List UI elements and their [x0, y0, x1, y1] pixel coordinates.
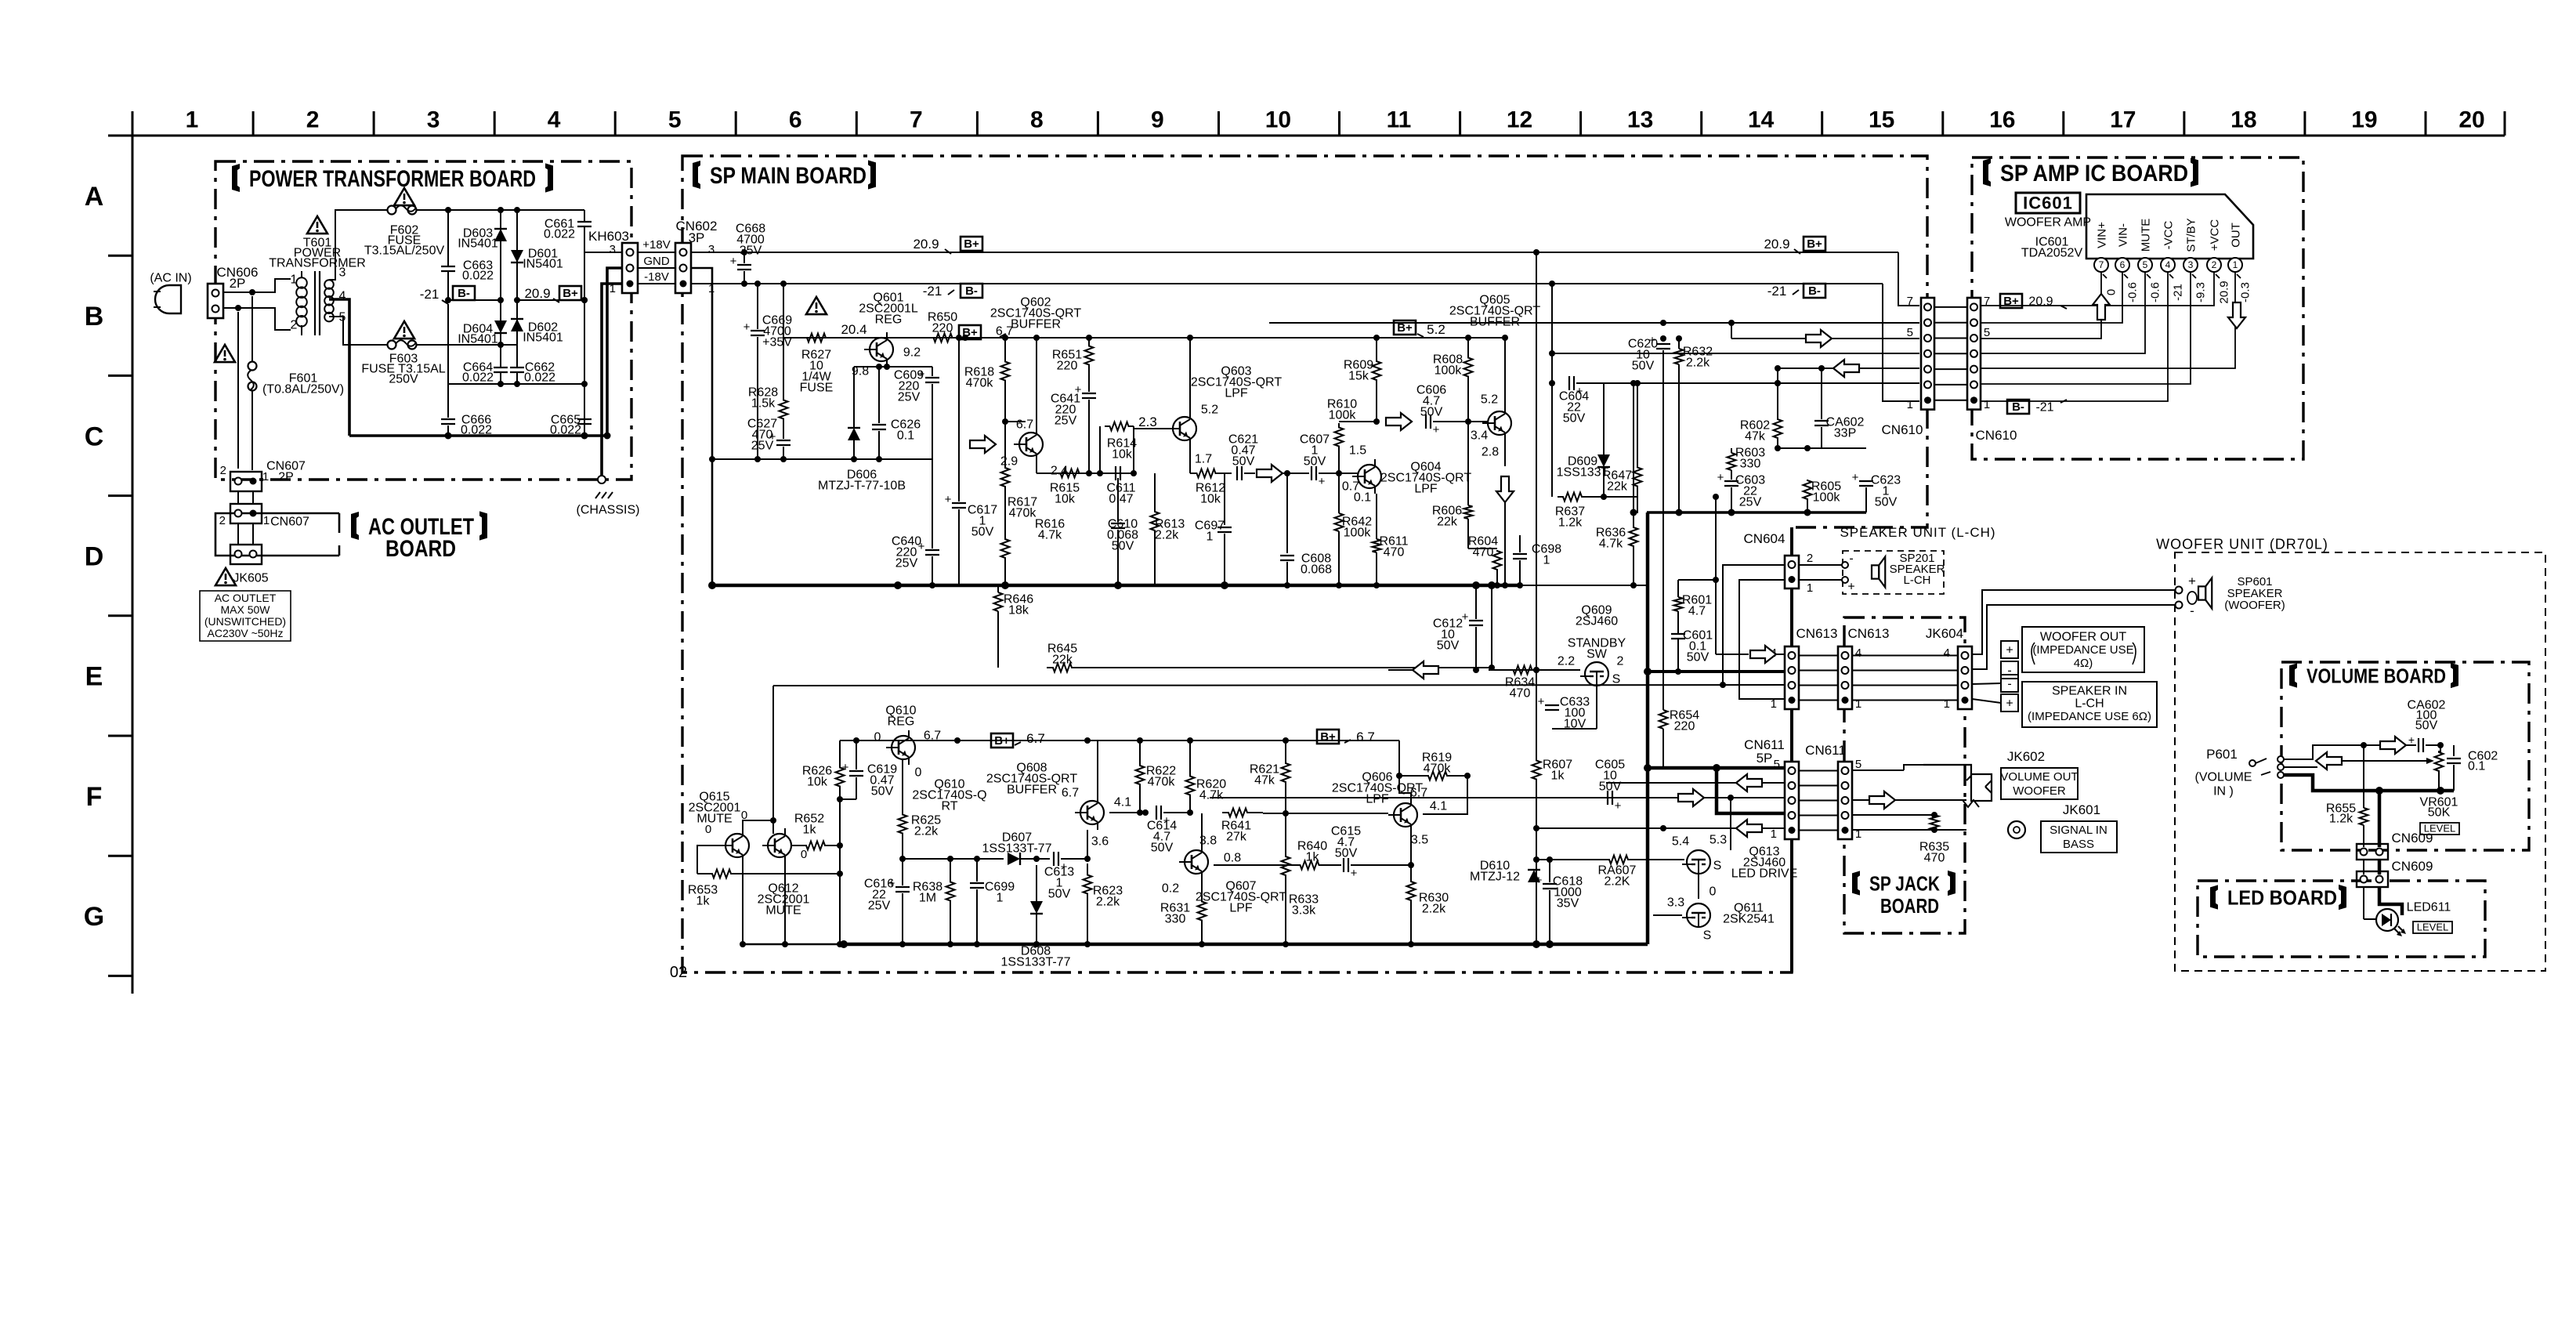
svg-text:R611470: R611470 — [1379, 535, 1408, 559]
capacitor C615 — [1331, 825, 1414, 881]
connector CN610 right — [1967, 295, 2017, 443]
capacitor C668 — [730, 223, 766, 287]
resistor R602 — [1740, 380, 1782, 448]
svg-text:R618470k: R618470k — [964, 366, 994, 390]
capacitor C661 — [544, 210, 592, 255]
wire Q604 emitter/collector — [1374, 454, 1376, 509]
arrow volume left — [2316, 752, 2342, 769]
wire R647 bottom — [1604, 497, 1637, 513]
svg-text:1: 1 — [1807, 581, 1813, 595]
svg-text:2: 2 — [220, 464, 226, 477]
wire Q603 base — [1134, 428, 1167, 429]
wire transformer secondary to F602 — [329, 210, 387, 280]
svg-text:7: 7 — [910, 107, 923, 133]
speaker SP601 terminals — [2176, 574, 2197, 618]
wire Q612 emitter down — [784, 857, 786, 944]
capacitor C608 — [1280, 473, 1332, 588]
transistor Q602 — [990, 296, 1081, 478]
label B+ 6.7 lower-right — [1317, 730, 1375, 744]
wire y451 line — [1549, 350, 1919, 357]
resistor R625 — [899, 760, 942, 859]
svg-text:B-: B- — [2012, 400, 2024, 414]
svg-text:5.2: 5.2 — [1427, 322, 1445, 337]
svg-text:R627101/4WFUSE: R627101/4WFUSE — [800, 349, 834, 395]
svg-text:B+: B+ — [1320, 730, 1336, 744]
svg-text:2.3: 2.3 — [1138, 415, 1157, 429]
svg-text:C6190.4750V: C6190.4750V — [867, 763, 897, 798]
svg-text:1: 1 — [291, 273, 298, 287]
connector CN609 lower — [2357, 859, 2433, 887]
svg-text:5.4: 5.4 — [1672, 835, 1689, 849]
svg-text:CN610: CN610 — [1976, 428, 2017, 443]
svg-text:C6620.022: C6620.022 — [524, 361, 555, 385]
svg-text:13: 13 — [1627, 107, 1653, 133]
wire to JK605 — [238, 523, 253, 545]
wire y999 line — [1606, 782, 1784, 784]
board outline SP JACK BOARD — [1844, 617, 1965, 933]
resistor R654 — [1659, 709, 1700, 768]
svg-text:R617470k: R617470k — [1008, 496, 1037, 520]
capacitor C641 — [1051, 370, 1096, 473]
svg-text:9: 9 — [1151, 107, 1164, 133]
resistor R638 — [913, 856, 955, 947]
svg-text:20.9: 20.9 — [2028, 295, 2053, 309]
label box SIGNAL IN BASS — [2041, 821, 2117, 853]
wire Q613 source net — [1699, 798, 1731, 854]
svg-text:3.4: 3.4 — [1471, 429, 1488, 443]
resistor R615 — [1050, 469, 1084, 506]
svg-text:6.7: 6.7 — [1026, 731, 1045, 746]
svg-text:-21: -21 — [923, 284, 942, 299]
arrow standby left — [1388, 661, 1438, 679]
label WOOFER UNIT (DR70L) — [2156, 536, 2328, 552]
svg-text:E: E — [85, 662, 103, 692]
svg-text:2: 2 — [1617, 655, 1624, 668]
wire heavy CN611 pin2 jog — [1713, 764, 1784, 813]
svg-text:C: C — [85, 422, 104, 451]
svg-text:18: 18 — [2230, 107, 2256, 133]
svg-text:S: S — [1703, 929, 1712, 943]
wire Q615 collector to mute drop — [741, 809, 773, 834]
svg-text:16: 16 — [1989, 107, 2015, 133]
board outline POWER TRANSFORMER BOARD — [215, 161, 631, 480]
capacitor C663 — [441, 210, 494, 300]
transistor Q615 MUTE — [689, 791, 749, 863]
resistor R628 — [748, 284, 788, 427]
svg-text:Q610REG: Q610REG — [885, 704, 916, 729]
svg-text:-: - — [2190, 603, 2194, 618]
svg-text:L-CH: L-CH — [2075, 697, 2104, 711]
svg-text:17: 17 — [2110, 107, 2136, 133]
wire R645 right link — [1488, 581, 1496, 671]
wire Q603 emitter down — [1134, 446, 1190, 473]
label -21 B- left — [923, 284, 982, 299]
node B- -21 — [420, 286, 475, 304]
transistor Q606 — [1332, 771, 1447, 847]
wire Q605 collector — [1502, 335, 1508, 406]
wire node y538 — [1339, 382, 1380, 425]
capacitor C619 — [842, 740, 898, 799]
wire R626 C619 loop bottom — [837, 796, 856, 802]
svg-text:2.8: 2.8 — [1482, 446, 1499, 459]
svg-text:R608100k: R608100k — [1433, 353, 1463, 378]
capacitor C662 — [510, 345, 555, 385]
wire -21 feed down — [1549, 284, 1555, 497]
transistor Q609 STANDBY SW — [1558, 604, 1626, 686]
svg-text:+: + — [1852, 471, 1859, 484]
resistor R647 — [1602, 380, 1642, 497]
resistor R605 — [1804, 448, 1842, 512]
resistor R620 — [1186, 740, 1227, 816]
op-amp IC601 body — [2086, 194, 2253, 259]
svg-text:3.3: 3.3 — [1667, 896, 1684, 910]
svg-text:D603IN5401: D603IN5401 — [458, 227, 498, 251]
capacitor C669 — [743, 284, 793, 459]
svg-text:D604IN5401: D604IN5401 — [458, 323, 498, 346]
svg-text:-21: -21 — [420, 287, 440, 302]
capacitor C665 — [550, 414, 592, 437]
wire x1072 down — [837, 799, 843, 944]
svg-text:2: 2 — [219, 514, 226, 527]
capacitor C604 — [1552, 376, 1634, 425]
speaker SP201 — [1842, 552, 1945, 593]
wire y489 line to CN610 — [1630, 380, 1919, 386]
wire y432 line — [1731, 323, 1919, 339]
svg-text:VOLUME OUT: VOLUME OUT — [2000, 770, 2078, 784]
board outline AC OUTLET BOARD — [215, 513, 339, 556]
svg-text:BOARD: BOARD — [1880, 894, 1939, 918]
capacitor C633 — [1538, 670, 1597, 731]
capacitor CA602 — [1814, 365, 1865, 448]
arrow y999 left — [1736, 774, 1762, 791]
arrow down at IC pin1 — [2228, 302, 2245, 328]
resistor R642 — [1335, 470, 1373, 588]
wire F603 rail — [417, 342, 517, 348]
capacitor C607 — [1300, 433, 1358, 489]
wires CN611B out — [1852, 765, 1966, 830]
svg-text:4: 4 — [339, 290, 346, 303]
svg-text:JK604: JK604 — [1926, 626, 1963, 641]
arrow input Q602 — [932, 436, 996, 453]
capacitor C603 — [1717, 471, 1766, 516]
svg-text:P601: P601 — [2206, 747, 2238, 762]
connector CN604 — [1744, 531, 1814, 595]
label AC OUTLET MAX 50W — [200, 591, 291, 641]
svg-text:KH603: KH603 — [588, 229, 629, 244]
svg-text:20.4: 20.4 — [841, 322, 867, 337]
wire Q607 output row — [1214, 864, 1297, 866]
svg-text:6.7: 6.7 — [924, 730, 941, 743]
arrow volume right — [2380, 737, 2406, 754]
label IC601 TDA2052V — [2021, 236, 2083, 260]
wire heavy to CN609 — [2378, 791, 2382, 847]
connector CN613 A — [1771, 626, 1838, 711]
capacitor C609 — [894, 367, 939, 459]
svg-text:2.9: 2.9 — [1000, 455, 1018, 469]
warning triangle T601 — [307, 216, 327, 234]
svg-text:4: 4 — [2165, 259, 2171, 270]
svg-text:+: + — [1536, 874, 1543, 887]
svg-text:C6630.022: C6630.022 — [462, 259, 494, 283]
svg-text:-18V: -18V — [644, 270, 669, 284]
svg-text:+: + — [1433, 423, 1440, 436]
wire Q608 collector/base — [1084, 740, 1098, 862]
wire Q602 emitter to R615 — [1002, 418, 1037, 473]
wire heavy vertical board edge x2287 — [1790, 527, 1793, 972]
resistor RA607 — [1598, 856, 1684, 889]
svg-text:5: 5 — [1907, 326, 1913, 339]
svg-text:SP AMP IC BOARD: SP AMP IC BOARD — [2000, 161, 2188, 186]
svg-text:R6333.3k: R6333.3k — [1289, 893, 1319, 918]
svg-text:2: 2 — [291, 319, 298, 332]
svg-text:0.1: 0.1 — [1354, 491, 1371, 505]
arrow to C606 — [1386, 413, 1412, 430]
wire y412 line — [1269, 320, 1919, 326]
svg-text:5: 5 — [1774, 758, 1780, 771]
svg-text:+: + — [1351, 867, 1358, 880]
wire B+ 20.9 top rail — [691, 249, 1898, 255]
title LED BOARD — [2210, 885, 2346, 910]
connector JK605 — [230, 545, 269, 585]
warning triangle JK605 — [215, 568, 236, 585]
capacitor C610 — [1107, 478, 1138, 589]
title SP JACK BOARD — [1852, 871, 1956, 918]
resistor R645 — [998, 643, 1492, 672]
wire CN606 pin2 down — [237, 312, 239, 469]
svg-text:1: 1 — [1771, 697, 1777, 711]
grid column numbers 1-20 — [186, 107, 2485, 133]
diode D603 — [458, 210, 507, 345]
capacitor C698 — [1513, 535, 1561, 588]
resistor R652 — [791, 813, 840, 850]
svg-text:5: 5 — [2143, 259, 2148, 270]
wire B+ vertical — [581, 226, 588, 436]
connector CN609 upper — [2357, 831, 2433, 860]
capacitor C621 — [1228, 433, 1258, 480]
svg-text:2.2: 2.2 — [1558, 655, 1575, 668]
svg-text:R605100k: R605100k — [1811, 480, 1841, 505]
wire Q606 leads — [1396, 740, 1411, 865]
svg-text:+: + — [1319, 475, 1326, 488]
resistor R653 — [688, 870, 840, 908]
chassis ground — [577, 476, 640, 517]
svg-text:1: 1 — [263, 514, 270, 527]
label LEVEL volume — [2420, 823, 2459, 835]
svg-text:WOOFER: WOOFER — [2013, 784, 2066, 798]
wire B+ node to KH603 — [514, 252, 622, 303]
grid row letters A-G — [84, 182, 104, 932]
capacitor C617 — [945, 335, 998, 585]
wire to C607 — [1283, 470, 1309, 476]
svg-text:12: 12 — [1507, 107, 1532, 133]
label SPEAKER UNIT (L-CH) — [1840, 525, 1995, 540]
svg-text:+: + — [2006, 697, 2013, 711]
svg-text:SP JACK: SP JACK — [1869, 871, 1940, 895]
connector CN607 2P — [220, 460, 306, 491]
wire KH603 pin1 heavy — [602, 284, 622, 482]
svg-text:4: 4 — [1944, 646, 1950, 660]
label 20.4 — [841, 322, 867, 337]
speaker SP601 — [2187, 575, 2285, 612]
label P601 VOLUME IN — [2195, 747, 2252, 798]
svg-text:-9.3: -9.3 — [2194, 282, 2207, 302]
label +18V GND -18V — [642, 238, 670, 284]
transformer T601 — [269, 237, 366, 335]
resistor R635 — [1919, 812, 1949, 865]
resistor R631 — [1160, 879, 1207, 947]
svg-text:20.9: 20.9 — [913, 237, 939, 252]
svg-text:R6364.7k: R6364.7k — [1596, 527, 1626, 551]
svg-text:5: 5 — [1855, 758, 1861, 771]
svg-text:7: 7 — [2099, 259, 2104, 270]
svg-text:B-: B- — [458, 287, 470, 300]
svg-text:B+: B+ — [964, 237, 979, 251]
svg-text:3.5: 3.5 — [1411, 834, 1428, 847]
svg-text:4.1: 4.1 — [1114, 796, 1131, 809]
svg-text:-0.6: -0.6 — [2126, 282, 2139, 302]
wires CN611 pair — [1799, 771, 1838, 831]
svg-text:20.9: 20.9 — [524, 286, 550, 301]
wire y489 long line — [1633, 383, 1634, 512]
resistor R601 — [1674, 577, 1720, 618]
grid ruler left line — [132, 111, 134, 994]
svg-text:+: + — [842, 761, 849, 774]
svg-text:CN604: CN604 — [1744, 531, 1785, 546]
svg-text:+: + — [2188, 574, 2196, 588]
resistor R610 — [1327, 398, 1357, 473]
resistor R622 — [1136, 740, 1177, 816]
resistor R641 — [1192, 809, 1263, 844]
svg-text:5.2: 5.2 — [1201, 404, 1218, 417]
resistor R618 — [964, 335, 1010, 422]
svg-text:R6252.2k: R6252.2k — [911, 814, 941, 838]
svg-text:11: 11 — [1387, 107, 1412, 133]
resistor R626 — [802, 740, 845, 799]
diode D604 — [458, 320, 507, 346]
wire y470 line — [1775, 365, 1919, 371]
svg-text:POWER TRANSFORMER BOARD: POWER TRANSFORMER BOARD — [249, 166, 536, 192]
resistor R637 — [1552, 493, 1607, 530]
wire Q608 emitter row — [1098, 809, 1149, 830]
svg-text:R6281.5k: R6281.5k — [748, 386, 778, 411]
svg-text:-VCC: -VCC — [2162, 221, 2175, 250]
svg-text:VIN+: VIN+ — [2095, 222, 2108, 248]
svg-text:JK601: JK601 — [2063, 802, 2100, 817]
svg-text:20: 20 — [2458, 107, 2484, 133]
svg-text:AC OUTLETMAX 50W(UNSWITCHED)AC: AC OUTLETMAX 50W(UNSWITCHED)AC230V ~50Hz — [204, 592, 286, 639]
svg-text:VIN-: VIN- — [2116, 223, 2129, 247]
capacitor C666 — [441, 414, 492, 437]
transistor Q611 2SK2541 — [1667, 885, 1775, 943]
connector CN611 A — [1744, 737, 1799, 841]
zener diode D610 — [1470, 856, 1540, 944]
svg-text:19: 19 — [2351, 107, 2377, 133]
svg-text:B+: B+ — [994, 734, 1010, 748]
resistor R646 — [994, 585, 1034, 668]
resistor R633 — [1282, 813, 1319, 947]
transistor Q610 REG — [874, 704, 942, 780]
warning triangle F603 — [394, 321, 414, 339]
svg-text:D601IN5401: D601IN5401 — [523, 248, 563, 271]
svg-text:2: 2 — [306, 107, 320, 133]
svg-text:R6551.2k: R6551.2k — [2326, 802, 2356, 826]
wire Q611 gate — [1653, 828, 1682, 915]
svg-text:4.1: 4.1 — [1430, 800, 1447, 813]
wire speaker feed long — [0, 0, 1, 1]
svg-text:C6694700+35V: C6694700+35V — [762, 314, 792, 349]
plus minus boxes JK604 — [2001, 641, 2018, 712]
arrow y470 left — [1833, 360, 1859, 377]
svg-text:14: 14 — [1748, 107, 1775, 133]
svg-text:0: 0 — [2104, 289, 2118, 295]
svg-text:R622470k: R622470k — [1146, 765, 1176, 789]
svg-text:(IMPEDANCE USE 6Ω): (IMPEDANCE USE 6Ω) — [2028, 710, 2151, 723]
capacitor C623 — [1804, 445, 1901, 512]
capacitor C640 — [892, 535, 939, 585]
wire Q604 base — [1339, 473, 1358, 476]
svg-text:R642100k: R642100k — [1342, 516, 1372, 540]
svg-text:B-: B- — [965, 284, 978, 298]
wire CN607 to AC outlet — [238, 491, 253, 504]
IC601 pin names — [2095, 218, 2242, 252]
wire B- to CN610 pin1 — [1883, 284, 1919, 401]
wire Q615 emitter down — [742, 857, 743, 944]
svg-text:B-: B- — [1808, 284, 1821, 298]
svg-text:R610100k: R610100k — [1327, 398, 1357, 422]
resistor R613 — [1151, 473, 1185, 585]
wire Q609 drain down heavy — [1646, 512, 1650, 944]
svg-text:+: + — [730, 255, 737, 268]
svg-text:-21: -21 — [2035, 401, 2053, 415]
capacitor C699 — [970, 856, 1015, 947]
connector CN610 left — [1882, 295, 1934, 437]
svg-text:OUT: OUT — [2229, 223, 2242, 248]
svg-text:Q6092SJ460: Q6092SJ460 — [1576, 604, 1618, 628]
wire heavy CN611 pin5 — [1644, 764, 1784, 772]
wire CN609 link — [2364, 860, 2379, 874]
resistor R607 — [1532, 252, 1573, 944]
svg-text:CN609: CN609 — [2392, 831, 2433, 845]
svg-text:R6322.2k: R6322.2k — [1683, 346, 1713, 370]
wire CN604 to SP201 — [1799, 565, 1842, 580]
resistor R640 — [1297, 840, 1341, 870]
svg-text:C6110.47: C6110.47 — [1106, 482, 1135, 506]
wire ground rail SP MAIN heavy — [708, 581, 1648, 589]
svg-text:-21: -21 — [1767, 284, 1787, 299]
grid ruler column ticks — [132, 111, 2505, 136]
svg-text:+: + — [2006, 644, 2013, 657]
label B- -21 at CN610 — [2007, 400, 2067, 415]
svg-text:LED611: LED611 — [2407, 901, 2451, 914]
wires into CN613 A — [1775, 654, 1785, 655]
svg-text:+: + — [945, 493, 952, 506]
plug AC IN — [150, 272, 191, 313]
wire reg ground row — [709, 456, 932, 462]
capacitor C611 — [1106, 466, 1135, 506]
capacitor C613 — [1044, 852, 1087, 901]
svg-text:-0.3: -0.3 — [2238, 282, 2252, 302]
transistor Q607 — [1162, 835, 1286, 915]
svg-text:(IMPEDANCE USE: (IMPEDANCE USE — [2032, 643, 2133, 657]
wire y1057 line — [1536, 825, 1784, 831]
capacitor C627 — [747, 418, 791, 459]
svg-text:CN607: CN607 — [270, 516, 309, 529]
svg-text:1: 1 — [610, 282, 616, 295]
transistor Q601 — [852, 291, 921, 378]
board outline VOLUME BOARD — [2281, 662, 2529, 850]
connector KH603 — [588, 229, 638, 295]
title SP MAIN BOARD — [693, 160, 876, 189]
